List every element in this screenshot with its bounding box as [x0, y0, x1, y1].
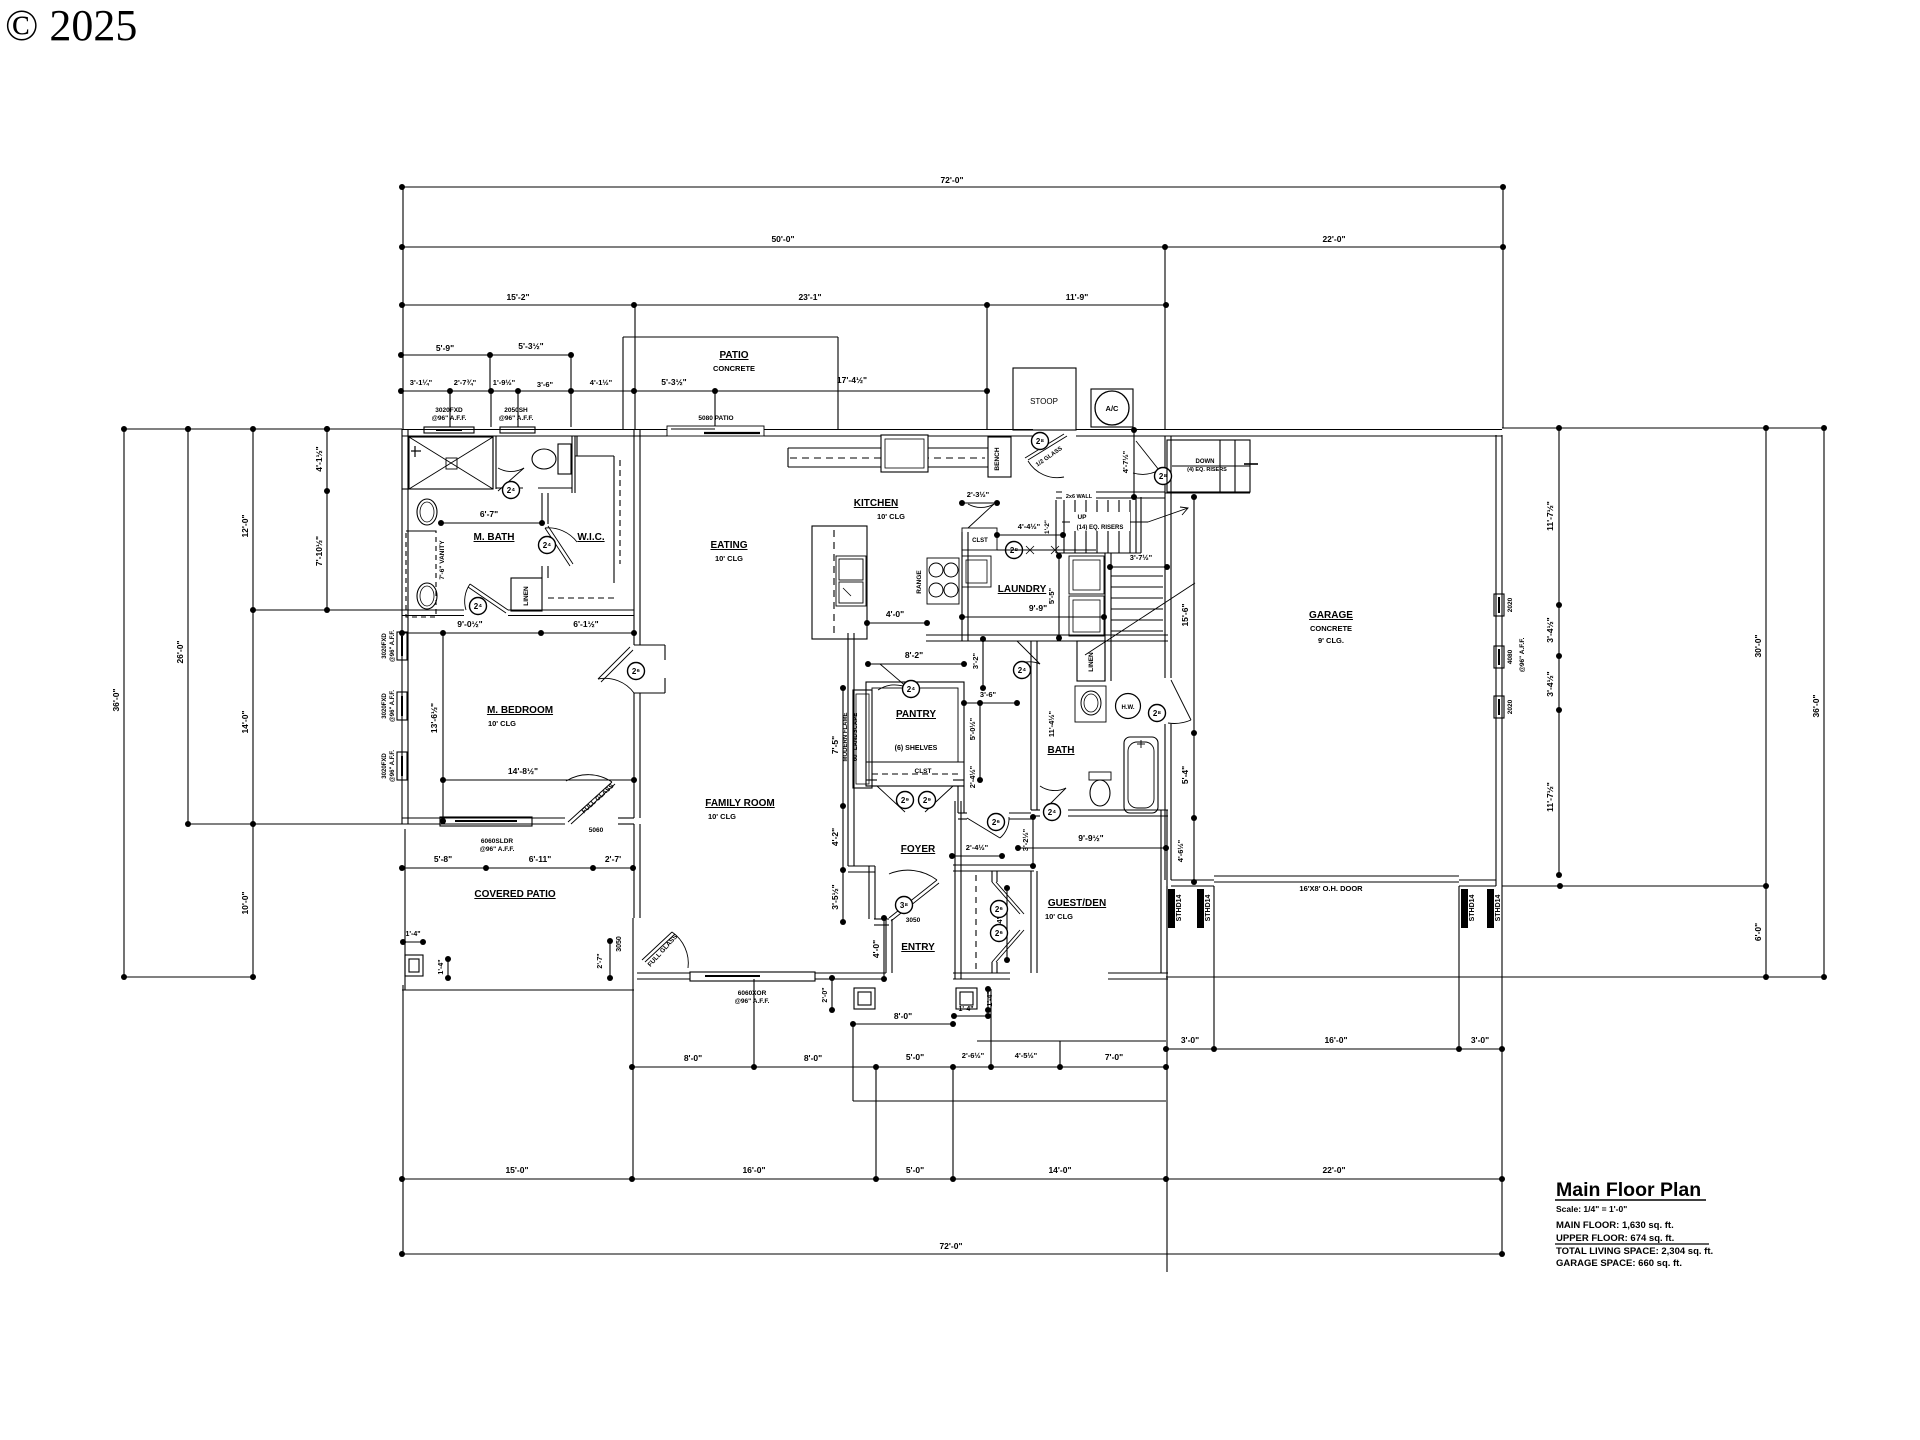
svg-text:36'-0": 36'-0" [111, 688, 121, 711]
svg-text:2⁴: 2⁴ [507, 486, 515, 495]
svg-text:3'-5½": 3'-5½" [830, 884, 840, 909]
svg-text:Main Floor Plan: Main Floor Plan [1556, 1179, 1701, 1201]
svg-text:2⁶: 2⁶ [995, 929, 1003, 938]
svg-text:14'-8½": 14'-8½" [508, 766, 538, 776]
svg-text:11'-7½": 11'-7½" [1545, 782, 1555, 812]
svg-text:10' CLG: 10' CLG [488, 719, 516, 728]
svg-text:UP: UP [1077, 514, 1087, 521]
svg-text:STHD14: STHD14 [1205, 894, 1212, 921]
svg-text:@96" A.F.F.: @96" A.F.F. [499, 415, 534, 422]
svg-text:5'-8": 5'-8" [434, 854, 452, 864]
svg-text:1'-4": 1'-4" [438, 959, 445, 974]
svg-text:5'-0½": 5'-0½" [968, 717, 977, 740]
svg-text:2'-4½": 2'-4½" [968, 765, 977, 788]
svg-text:MAIN FLOOR: 1,630 sq. ft.: MAIN FLOOR: 1,630 sq. ft. [1556, 1220, 1674, 1231]
svg-text:2'-3½": 2'-3½" [967, 490, 990, 499]
svg-text:STHD14: STHD14 [1469, 894, 1476, 921]
svg-text:CLST: CLST [972, 538, 988, 544]
svg-text:2⁶: 2⁶ [992, 818, 1000, 827]
svg-text:@96" A.F.F.: @96" A.F.F. [480, 846, 515, 853]
svg-text:1'-2": 1'-2" [1044, 520, 1051, 534]
svg-text:14'-0": 14'-0" [240, 710, 250, 733]
svg-text:9'-9": 9'-9" [1029, 603, 1047, 613]
svg-text:4'-1½": 4'-1½" [314, 446, 324, 471]
svg-text:FAMILY ROOM: FAMILY ROOM [705, 798, 774, 809]
svg-text:3'-4½": 3'-4½" [1545, 617, 1555, 642]
svg-text:© 2025: © 2025 [5, 1, 137, 50]
svg-text:GUEST/DEN: GUEST/DEN [1048, 898, 1106, 909]
svg-text:3'-0": 3'-0" [1471, 1035, 1489, 1045]
svg-text:2'-7': 2'-7' [605, 854, 621, 864]
svg-text:DOWN: DOWN [1196, 459, 1215, 465]
svg-text:Scale: 1/4" = 1'-0": Scale: 1/4" = 1'-0" [1556, 1204, 1627, 1214]
svg-text:3'-6": 3'-6" [980, 690, 997, 699]
svg-text:22'-0": 22'-0" [1322, 1165, 1345, 1175]
svg-text:6'-7": 6'-7" [480, 509, 498, 519]
svg-text:BATH: BATH [1047, 745, 1074, 756]
svg-text:(4) EQ. RISERS: (4) EQ. RISERS [1187, 467, 1227, 473]
svg-text:2'-0": 2'-0" [822, 987, 829, 1002]
svg-text:COVERED PATIO: COVERED PATIO [474, 889, 556, 900]
svg-text:17'-4½": 17'-4½" [837, 375, 867, 385]
svg-text:3'-0": 3'-0" [1181, 1035, 1199, 1045]
svg-text:EATING: EATING [710, 540, 747, 551]
svg-text:2⁴: 2⁴ [474, 602, 482, 611]
svg-text:BENCH: BENCH [994, 447, 1001, 470]
svg-text:4'-4½": 4'-4½" [1018, 522, 1041, 531]
svg-text:3050: 3050 [906, 917, 921, 924]
svg-text:W.I.C.: W.I.C. [577, 532, 604, 543]
svg-text:1'-4": 1'-4" [405, 931, 420, 938]
svg-text:50'-0": 50'-0" [771, 234, 794, 244]
svg-text:STHD14: STHD14 [1495, 894, 1502, 921]
svg-text:STOOP: STOOP [1030, 397, 1058, 406]
svg-text:(6) SHELVES: (6) SHELVES [895, 745, 938, 752]
svg-text:@96" A.F.F.: @96" A.F.F. [390, 690, 396, 722]
svg-text:LINEN: LINEN [523, 586, 530, 606]
svg-text:72'-0": 72'-0" [940, 175, 963, 185]
svg-text:CONCRETE: CONCRETE [713, 364, 755, 373]
svg-text:5060: 5060 [589, 827, 604, 834]
svg-text:26'-0": 26'-0" [175, 640, 185, 663]
svg-text:2⁴: 2⁴ [1048, 808, 1056, 817]
svg-text:30'-0": 30'-0" [1753, 634, 1763, 657]
svg-text:2⁸: 2⁸ [1159, 472, 1167, 481]
svg-text:5'-0": 5'-0" [906, 1052, 924, 1062]
svg-text:LAUNDRY: LAUNDRY [998, 584, 1047, 595]
svg-text:23'-1": 23'-1" [798, 292, 821, 302]
svg-text:ENTRY: ENTRY [901, 942, 935, 953]
svg-text:GARAGE SPACE: 660 sq. ft.: GARAGE SPACE: 660 sq. ft. [1556, 1258, 1682, 1269]
svg-text:4'-0": 4'-0" [886, 609, 904, 619]
svg-text:5'-5": 5'-5" [1047, 587, 1056, 604]
svg-text:8'-0": 8'-0" [684, 1053, 702, 1063]
svg-text:4'-6½": 4'-6½" [1176, 839, 1185, 862]
svg-text:@96" A.F.F.: @96" A.F.F. [390, 630, 396, 662]
svg-text:FOYER: FOYER [901, 844, 936, 855]
svg-text:TOTAL LIVING SPACE: 2,304 sq.: TOTAL LIVING SPACE: 2,304 sq. ft. [1556, 1246, 1713, 1257]
svg-text:10' CLG: 10' CLG [1045, 912, 1073, 921]
svg-text:4'-7½": 4'-7½" [1121, 450, 1130, 473]
svg-text:2⁶: 2⁶ [995, 905, 1003, 914]
svg-text:H.W.: H.W. [1122, 705, 1135, 711]
svg-text:4'-1½": 4'-1½" [590, 378, 613, 387]
svg-text:@96" A.F.F.: @96" A.F.F. [735, 998, 770, 1005]
svg-text:(14) EQ. RISERS: (14) EQ. RISERS [1077, 525, 1124, 531]
svg-text:PANTRY: PANTRY [896, 709, 936, 720]
svg-text:2'-6½": 2'-6½" [962, 1051, 985, 1060]
svg-text:7'-6" VANITY: 7'-6" VANITY [439, 540, 446, 580]
svg-text:10'-0": 10'-0" [240, 891, 250, 914]
svg-text:3⁸: 3⁸ [900, 901, 908, 910]
svg-text:3'-4½": 3'-4½" [1545, 671, 1555, 696]
svg-text:9'-0½": 9'-0½" [457, 619, 482, 629]
svg-text:LINEN: LINEN [1088, 652, 1095, 672]
svg-text:6'-0": 6'-0" [1753, 923, 1763, 941]
svg-text:13'-6½": 13'-6½" [429, 703, 439, 733]
svg-text:36'-0": 36'-0" [1811, 694, 1821, 717]
svg-text:2⁴: 2⁴ [543, 541, 551, 550]
svg-text:2⁴: 2⁴ [1018, 666, 1026, 675]
svg-text:4'-0": 4'-0" [871, 940, 881, 958]
svg-text:15'-0": 15'-0" [505, 1165, 528, 1175]
svg-text:7'-10½": 7'-10½" [314, 536, 324, 566]
svg-text:4'-2": 4'-2" [830, 828, 840, 846]
svg-text:5080 PATIO: 5080 PATIO [698, 415, 733, 422]
svg-text:16'X8' O.H. DOOR: 16'X8' O.H. DOOR [1299, 884, 1363, 893]
svg-text:7'-0": 7'-0" [1105, 1052, 1123, 1062]
svg-text:15'-6": 15'-6" [1180, 603, 1190, 626]
svg-text:2⁹: 2⁹ [901, 796, 909, 805]
svg-text:M. BATH: M. BATH [474, 532, 515, 543]
svg-text:7'-5": 7'-5" [830, 736, 840, 754]
svg-text:2020: 2020 [1507, 699, 1514, 714]
svg-text:11'-7½": 11'-7½" [1545, 501, 1555, 531]
svg-text:5'-3½": 5'-3½" [661, 377, 686, 387]
svg-text:16'-0": 16'-0" [742, 1165, 765, 1175]
svg-text:10' CLG: 10' CLG [708, 812, 736, 821]
svg-text:2⁸: 2⁸ [1036, 437, 1044, 446]
svg-text:22'-0": 22'-0" [1322, 234, 1345, 244]
svg-text:UPPER FLOOR: 674 sq. ft.: UPPER FLOOR: 674 sq. ft. [1556, 1233, 1674, 1244]
svg-text:4080: 4080 [1507, 649, 1514, 664]
svg-text:3'-1¼": 3'-1¼" [410, 378, 433, 387]
svg-text:2⁶: 2⁶ [632, 667, 640, 676]
svg-text:@96" A.F.F.: @96" A.F.F. [1519, 637, 1526, 672]
svg-text:MODERN FLAME: MODERN FLAME [843, 713, 849, 762]
svg-text:8'-2": 8'-2" [905, 650, 923, 660]
svg-text:3'-2½": 3'-2½" [1021, 828, 1030, 851]
svg-text:12'-0": 12'-0" [240, 514, 250, 537]
svg-text:72'-0": 72'-0" [939, 1241, 962, 1251]
svg-text:PATIO: PATIO [719, 350, 748, 361]
svg-text:3020FXD: 3020FXD [435, 407, 463, 414]
svg-text:5'-3½": 5'-3½" [518, 341, 543, 351]
svg-text:3'-7½": 3'-7½" [1130, 553, 1153, 562]
svg-text:8'-0": 8'-0" [804, 1053, 822, 1063]
svg-text:2x6 WALL: 2x6 WALL [1066, 494, 1093, 500]
svg-text:2'-4½": 2'-4½" [966, 843, 989, 852]
svg-text:5'-9": 5'-9" [436, 343, 454, 353]
svg-text:9'-9½": 9'-9½" [1078, 833, 1103, 843]
svg-text:2'-7": 2'-7" [597, 953, 604, 968]
svg-text:16'-0": 16'-0" [1324, 1035, 1347, 1045]
svg-text:3020FXD: 3020FXD [382, 633, 388, 659]
svg-text:CONCRETE: CONCRETE [1310, 624, 1352, 633]
svg-text:KITCHEN: KITCHEN [854, 498, 898, 509]
svg-text:2⁸: 2⁸ [1153, 709, 1161, 718]
svg-text:11'-9": 11'-9" [1066, 292, 1089, 302]
svg-text:14'-0": 14'-0" [1048, 1165, 1071, 1175]
svg-text:5'-4": 5'-4" [1180, 766, 1190, 784]
svg-text:3'-6": 3'-6" [537, 380, 554, 389]
svg-text:RANGE: RANGE [916, 570, 923, 594]
svg-text:3020FXD: 3020FXD [382, 693, 388, 719]
svg-text:STHD14: STHD14 [1176, 894, 1183, 921]
svg-text:GARAGE: GARAGE [1309, 610, 1353, 621]
svg-text:3050: 3050 [616, 936, 623, 952]
svg-text:10' CLG: 10' CLG [877, 512, 905, 521]
svg-text:2'-7¾": 2'-7¾" [454, 378, 477, 387]
svg-text:5'-0": 5'-0" [906, 1165, 924, 1175]
svg-text:@96" A.F.F.: @96" A.F.F. [390, 750, 396, 782]
svg-text:4'-5½": 4'-5½" [1015, 1051, 1038, 1060]
svg-text:15'-2": 15'-2" [506, 292, 529, 302]
svg-text:6'-11": 6'-11" [529, 854, 552, 864]
svg-text:A/C: A/C [1106, 404, 1120, 413]
svg-text:2050SH: 2050SH [504, 407, 528, 414]
svg-text:9' CLG.: 9' CLG. [1318, 636, 1344, 645]
svg-text:3'-2": 3'-2" [971, 652, 980, 669]
svg-text:6060XOR: 6060XOR [738, 990, 767, 997]
svg-text:3020FXD: 3020FXD [382, 753, 388, 779]
svg-text:8'-0": 8'-0" [894, 1011, 912, 1021]
svg-text:@96" A.F.F.: @96" A.F.F. [432, 415, 467, 422]
svg-text:2⁴: 2⁴ [907, 685, 915, 694]
svg-text:M. BEDROOM: M. BEDROOM [487, 705, 553, 716]
svg-text:11'-4½": 11'-4½" [1047, 710, 1056, 737]
svg-text:2⁹: 2⁹ [923, 796, 931, 805]
svg-text:2020: 2020 [1507, 597, 1514, 612]
svg-text:6060SLDR: 6060SLDR [481, 838, 513, 845]
svg-text:6'-1½": 6'-1½" [573, 619, 598, 629]
svg-text:10' CLG: 10' CLG [715, 554, 743, 563]
svg-text:1'-9½": 1'-9½" [493, 378, 516, 387]
svg-text:60" LANDSCAPE: 60" LANDSCAPE [853, 713, 859, 762]
